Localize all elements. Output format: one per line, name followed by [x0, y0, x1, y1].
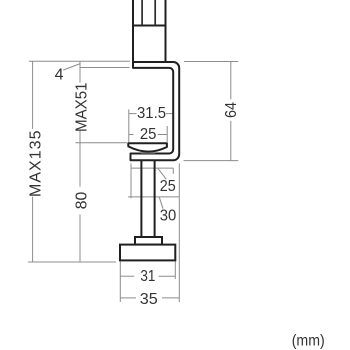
dimension line 25 (pad width) — [129, 134, 167, 136]
extension line top-left (plate top edge to MAX135) — [29, 60, 130, 62]
dimension text 31.5 — [137, 105, 166, 122]
extension line left of 31/35 (foot left) — [119, 262, 121, 303]
clamp body (C-bracket) — [131, 62, 180, 160]
extension line right of 25 (dish right tip) — [166, 126, 168, 142]
leader line for 25 (arm) — [158, 169, 166, 180]
extension line left of 25/30 (arm left edge) — [130, 163, 132, 198]
svg-text:35: 35 — [140, 291, 158, 308]
extension line bottom-left (foot bottom to MAX135) — [28, 261, 116, 263]
svg-text:(mm): (mm) — [292, 332, 325, 349]
pole holder tube — [133, 0, 166, 62]
svg-text:30: 30 — [160, 207, 177, 224]
dimension line 31.5 — [129, 113, 173, 115]
end tick of 25 (arm) — [172, 168, 174, 174]
dimension text 35 — [140, 291, 158, 308]
extension line right of 30/35 (clamp outer back) — [178, 163, 180, 302]
svg-text:80: 80 — [73, 192, 90, 210]
svg-text:64: 64 — [223, 102, 240, 118]
extension line right of 31 (foot right) — [174, 262, 176, 280]
screw shaft — [141, 160, 154, 237]
extension line pad top (to 80/MAX51) — [75, 142, 127, 144]
dimension line 31 — [120, 275, 175, 277]
pressure pad dish — [128, 143, 167, 151]
dimension line 35 — [120, 297, 179, 299]
screw swivel nub (gray) — [141, 150, 155, 154]
svg-text:31.5: 31.5 — [137, 105, 166, 122]
dimension text 64 — [223, 102, 240, 118]
dimension text MAX135 — [27, 130, 44, 197]
unit label (mm) — [292, 332, 325, 349]
svg-text:31: 31 — [140, 268, 155, 285]
svg-text:4: 4 — [55, 66, 64, 83]
extension line top-right (plate top to 64) — [184, 61, 238, 63]
dimension text 25 (arm) — [160, 178, 176, 195]
dimension text 31 — [140, 268, 155, 285]
dimension line 30 — [128, 196, 179, 198]
extension line shared left of 31.5 and 25 (dish left) — [128, 109, 130, 142]
leader line for 4 — [63, 64, 79, 70]
dimension line 25 (arm inner depth) — [131, 167, 173, 169]
dimension line MAX51 / 80 vertical — [79, 61, 81, 262]
knob foot — [120, 245, 175, 261]
dimension text 30 — [160, 207, 177, 224]
svg-text:MAX51: MAX51 — [73, 82, 90, 132]
svg-text:25: 25 — [160, 178, 176, 195]
extension line bottom-right (arm bottom to 64) — [184, 160, 239, 162]
dimension line 64 vertical — [230, 62, 232, 161]
knob step — [135, 237, 162, 245]
dimension text 25 (pad) — [140, 126, 157, 143]
leader line for 30 — [159, 197, 163, 209]
dimension line MAX135 vertical — [32, 61, 34, 262]
extension line plate bottom (to MAX51) — [80, 67, 130, 69]
svg-text:25: 25 — [140, 126, 157, 143]
pole inside tube — [142, 0, 155, 26]
dimension text 80 — [73, 192, 90, 210]
dimension text 4 — [55, 66, 64, 83]
dimension text MAX51 — [73, 82, 90, 132]
